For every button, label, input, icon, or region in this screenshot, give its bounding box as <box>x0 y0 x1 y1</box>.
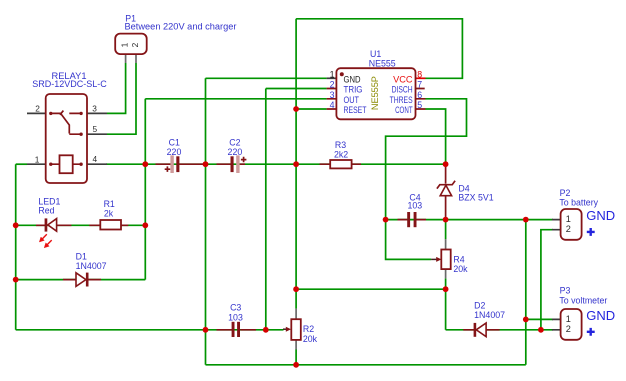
svg-text:3: 3 <box>92 103 97 113</box>
label P3 plus <box>587 328 595 336</box>
svg-text:Red: Red <box>38 206 54 216</box>
wire C3 line <box>16 329 284 331</box>
svg-text:3: 3 <box>330 90 335 100</box>
relay RELAY1 pin 1 stub <box>27 163 46 165</box>
capacitor C4 plates <box>407 212 410 227</box>
LED1 emission arrows <box>39 234 51 248</box>
potentiometer R4 body <box>441 250 450 270</box>
connector P2 pin stubs <box>552 220 561 230</box>
svg-text:20k: 20k <box>453 264 468 274</box>
capacitor C2 plus sign <box>241 157 247 163</box>
svg-text:103: 103 <box>228 312 243 322</box>
wire R4 top segment <box>445 220 447 240</box>
svg-text:2: 2 <box>330 80 335 90</box>
svg-text:1: 1 <box>566 314 571 324</box>
svg-text:GND: GND <box>586 208 615 223</box>
relay RELAY1 pin 4 stub <box>87 163 107 165</box>
wire P2 pin2 down to D2 line <box>541 230 553 330</box>
svg-text:Between 220V and charger: Between 220V and charger <box>125 22 237 32</box>
svg-text:20k: 20k <box>303 334 318 344</box>
svg-text:VCC: VCC <box>393 74 413 84</box>
wire R4 bottom segment <box>445 278 447 289</box>
svg-text:2: 2 <box>566 224 571 234</box>
svg-text:1: 1 <box>35 154 40 164</box>
LED1 cathode bar <box>45 218 48 231</box>
node OUT rail <box>142 161 148 167</box>
svg-text:NE555: NE555 <box>369 58 396 68</box>
resistor R3 <box>330 160 351 168</box>
svg-text:CONT: CONT <box>395 105 413 115</box>
capacitor C1 plus sign <box>165 166 171 172</box>
svg-text:2: 2 <box>35 104 40 114</box>
wire main rail y=164 <box>106 163 446 165</box>
U1 pin 7,6,5 stubs <box>416 89 426 110</box>
potentiometer R2 stubs <box>295 309 297 350</box>
capacitor C1 plates <box>170 155 173 173</box>
relay RELAY1 pin 3 stub <box>87 112 107 114</box>
wire D2 line to P3 pin2 <box>446 329 553 331</box>
wire VCC vertical x=296 upper <box>295 19 297 309</box>
svg-text:2: 2 <box>130 42 140 47</box>
svg-text:BZX 5V1: BZX 5V1 <box>458 192 493 202</box>
svg-text:1N4007: 1N4007 <box>76 261 107 271</box>
wire C4 line to P2 pin1 <box>386 219 553 221</box>
svg-text:103: 103 <box>407 200 422 210</box>
node P3 pin1 branch <box>523 317 529 323</box>
svg-text:2k: 2k <box>104 209 114 219</box>
connector P3 pin stubs <box>552 319 561 329</box>
wire CONT down to rail <box>426 109 446 164</box>
diode D1 cathode bar <box>86 273 89 287</box>
relay RELAY1 body <box>46 94 87 183</box>
potentiometer R2 wiper arrow <box>283 328 287 330</box>
capacitor C2 plates <box>231 156 234 172</box>
svg-text:2: 2 <box>566 324 571 334</box>
connector P2 body <box>561 209 582 240</box>
op-amp U1 pin 1 stub <box>327 77 337 79</box>
node GND rail <box>203 161 209 167</box>
svg-text:P3: P3 <box>560 285 571 295</box>
svg-text:5: 5 <box>417 100 422 110</box>
capacitor C3 plates <box>232 322 235 337</box>
relay coil leads <box>52 163 80 165</box>
U1 pin 2,3,4 stubs <box>327 89 337 110</box>
zener D4 leads <box>445 165 447 220</box>
svg-text:1: 1 <box>566 214 571 224</box>
svg-text:4: 4 <box>92 154 97 164</box>
svg-text:GND: GND <box>586 308 615 323</box>
svg-text:TRIG: TRIG <box>344 85 363 95</box>
wire GND vertical x=205.5 <box>205 78 207 365</box>
node D4 C4 <box>443 217 449 223</box>
resistor R1 leads <box>89 224 128 226</box>
diode D1 triangle <box>76 273 86 287</box>
wire rail left of relay pin 1 <box>16 163 27 165</box>
relay switch arm <box>52 111 80 135</box>
node C4/P2 branch <box>523 217 529 223</box>
wire P1 pin1 to relay pin3 <box>107 63 126 113</box>
wire vertical x=525.8 C4 line to bottom rail <box>525 220 527 365</box>
capacitor C1 leads <box>156 163 206 165</box>
diode D2 triangle <box>476 323 486 337</box>
svg-text:C2: C2 <box>229 137 240 147</box>
potentiometer R4 stubs <box>445 239 447 278</box>
svg-text:THRES: THRES <box>390 95 413 105</box>
svg-text:2k2: 2k2 <box>334 149 348 159</box>
node TRIG C3 <box>263 327 269 333</box>
diode D1 leads <box>63 279 101 281</box>
node D2/P2 pin2 <box>538 327 544 333</box>
svg-text:DISCH: DISCH <box>392 85 413 95</box>
svg-text:NE555P: NE555P <box>370 76 380 110</box>
wire U1 pin4 RESET line <box>296 108 327 110</box>
node R2 top <box>293 286 299 292</box>
U1 pin1 marker dot <box>340 72 344 76</box>
relay switch contacts <box>49 112 83 166</box>
relay RELAY1 pin 2 stub <box>27 112 46 114</box>
wire R4 bottom down to D2 line <box>445 289 447 330</box>
capacitor C3 leads <box>217 329 257 331</box>
svg-text:6: 6 <box>417 90 422 100</box>
wire VCC vertical x=296 lower below R2 <box>295 350 297 365</box>
svg-text:1N4007: 1N4007 <box>474 310 505 320</box>
svg-text:7: 7 <box>417 80 422 90</box>
svg-text:To battery: To battery <box>559 198 598 208</box>
node D1 line left <box>13 277 19 283</box>
wire bottom rail <box>206 364 526 366</box>
wire R2 to R4 bottom line <box>296 288 446 290</box>
svg-text:RESET: RESET <box>344 105 367 115</box>
connector P1 body <box>115 34 147 55</box>
potentiometer R2 body <box>291 319 301 340</box>
wire P3 pin1 line <box>526 318 553 320</box>
LED1 leads <box>36 224 71 226</box>
connector P1 pin stubs <box>126 54 136 63</box>
svg-text:4: 4 <box>330 100 335 110</box>
wire U1 pin1 GND line <box>206 77 327 79</box>
node D4 rail <box>443 161 449 167</box>
svg-text:1: 1 <box>330 69 335 79</box>
zener D4 cathode bar with hooks <box>437 181 455 189</box>
wire D1 line <box>16 279 146 281</box>
resistor R1 <box>100 220 121 230</box>
wire U1 pin2 TRIG line <box>266 88 327 90</box>
node C4 left <box>383 217 389 223</box>
wire left vertical bus <box>15 164 17 330</box>
capacitor C4 leads <box>398 219 427 221</box>
diode D2 leads <box>463 329 499 331</box>
wire LED/R1 line <box>16 224 146 226</box>
node R2 bottom <box>293 362 299 368</box>
svg-text:R2: R2 <box>303 324 314 334</box>
node LED line left <box>13 222 19 228</box>
relay RELAY1 pin 5 stub <box>87 133 107 135</box>
capacitor C2 leads <box>217 163 246 165</box>
U1 pin 8 stub red <box>416 77 426 79</box>
node VCC rail <box>293 161 299 167</box>
wire top VCC loop <box>296 19 462 79</box>
svg-text:1: 1 <box>119 42 129 47</box>
svg-text:C3: C3 <box>230 303 241 313</box>
svg-text:220: 220 <box>167 147 182 157</box>
svg-text:To voltmeter: To voltmeter <box>559 295 607 305</box>
relay coil box <box>60 155 73 173</box>
svg-text:C1: C1 <box>169 137 180 147</box>
svg-text:GND: GND <box>344 74 361 84</box>
svg-text:220: 220 <box>228 147 243 157</box>
node LED/D1 right <box>142 222 148 228</box>
wire vertical OUT bus x=145 <box>144 99 146 280</box>
resistor R3 leads <box>320 163 362 165</box>
node RESET <box>293 106 299 112</box>
wire TRIG vertical x=265.8 <box>265 89 267 330</box>
wire U1 pin3 OUT line <box>145 98 326 100</box>
node GND C3 <box>203 327 209 333</box>
potentiometer R4 wiper arrow <box>431 258 437 260</box>
wire P1 pin2 to relay pin5 <box>107 63 136 134</box>
svg-text:R3: R3 <box>335 140 346 150</box>
svg-text:R4: R4 <box>453 254 464 264</box>
svg-text:SRD-12VDC-SL-C: SRD-12VDC-SL-C <box>32 79 107 89</box>
node R4 bottom <box>443 286 449 292</box>
wire THRES loop to C4/R4 wiper <box>386 99 467 260</box>
diode D2 cathode bar <box>474 323 477 337</box>
label P2 plus <box>587 228 595 236</box>
svg-text:OUT: OUT <box>344 95 360 105</box>
svg-text:5: 5 <box>92 124 97 134</box>
svg-text:R1: R1 <box>104 199 115 209</box>
svg-text:8: 8 <box>417 69 422 79</box>
zener D4 triangle <box>440 185 451 195</box>
connector P3 body <box>561 309 582 340</box>
op-amp U1 body <box>336 68 415 119</box>
LED1 triangle <box>48 219 57 232</box>
